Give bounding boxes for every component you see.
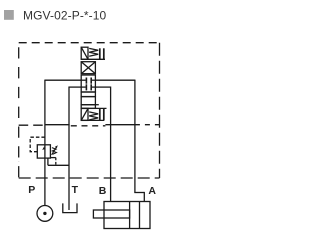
valve box2 X diagonal 1 — [81, 62, 95, 74]
valve box3 stub lower-left — [81, 86, 86, 88]
relief valve drain dashed vertical — [55, 158, 57, 166]
envelope dashed bottom edge — [19, 177, 160, 179]
wire P-T interconnect solid — [45, 124, 70, 126]
wire A step horizontal — [134, 192, 144, 194]
valve box1 baseline — [81, 58, 105, 60]
pump circle — [37, 206, 53, 222]
relief valve internal arrow — [42, 146, 44, 150]
valve box1 spring zigzag — [89, 48, 98, 56]
valve box2 X diagonal 2 — [81, 62, 95, 74]
wire A step vertical into cylinder — [143, 192, 145, 202]
tank symbol — [63, 203, 77, 212]
svg-text:T: T — [72, 184, 79, 196]
valve box1 bar 1 — [99, 48, 101, 59]
valve box1 check diagonal — [81, 47, 88, 59]
wire T horizontal from stack — [69, 86, 81, 88]
cylinder piston line 1 — [129, 202, 131, 229]
relief valve drain vertical — [47, 158, 49, 165]
wire A vertical down right side — [134, 80, 136, 193]
module slab box4 — [81, 92, 95, 97]
wire B vertical down to cylinder — [110, 87, 112, 203]
wire P horizontal from stack to left corner — [45, 79, 82, 81]
relief valve drain horizontal to T — [48, 164, 69, 166]
valve box5 top line — [81, 107, 106, 109]
relief valve spring seat extension — [50, 157, 55, 159]
title bullet square — [4, 10, 14, 20]
valve box5 check square — [81, 108, 88, 120]
valve box1 check square — [81, 47, 88, 59]
cylinder piston line 2 — [139, 202, 141, 229]
svg-text:A: A — [148, 185, 156, 197]
wire B-A interconnect solid — [105, 124, 134, 126]
cylinder body — [104, 202, 150, 229]
wire T vertical down to tank — [68, 87, 70, 211]
relief valve box — [37, 145, 50, 158]
valve box5 bar 1 — [99, 108, 101, 120]
envelope dashed midline right segment — [135, 124, 160, 126]
valve box2 rectangle — [81, 62, 95, 74]
valve box3 stub lower-right — [92, 86, 96, 88]
valve box3 stub upper-left — [81, 79, 86, 81]
envelope dashed midline center segment — [71, 125, 106, 127]
relief valve adjust arrow — [52, 147, 57, 155]
module divider with stub — [81, 105, 95, 109]
pump center dot — [43, 212, 46, 215]
module empty box — [81, 97, 95, 105]
envelope dashed left edge — [18, 43, 20, 178]
relief valve pilot dashed line — [30, 137, 45, 152]
cylinder rod — [93, 210, 129, 218]
valve box5 bottom line — [81, 119, 104, 121]
envelope dashed top edge — [19, 42, 160, 44]
valve box5 bar 2 — [103, 108, 105, 120]
svg-text:P: P — [28, 184, 35, 196]
wire P vertical down to pump — [44, 80, 46, 206]
wire A horizontal from stack right — [95, 79, 135, 81]
envelope dashed right edge — [159, 43, 161, 178]
valve box3 stub upper-right — [92, 79, 96, 81]
valve box5 spring zigzag — [89, 112, 98, 120]
valve box1 bar 2 — [103, 48, 105, 59]
valve box5 check diagonal — [81, 108, 88, 120]
envelope dashed midline left segment — [19, 124, 45, 126]
svg-text:MGV-02-P-*-10: MGV-02-P-*-10 — [23, 8, 107, 22]
svg-text:B: B — [99, 185, 107, 197]
valve box3 rectangle — [81, 75, 95, 92]
relief valve spring strokes — [52, 148, 57, 155]
relief valve adjust arrowhead — [55, 145, 58, 148]
wire B horizontal from stack right — [95, 86, 110, 88]
